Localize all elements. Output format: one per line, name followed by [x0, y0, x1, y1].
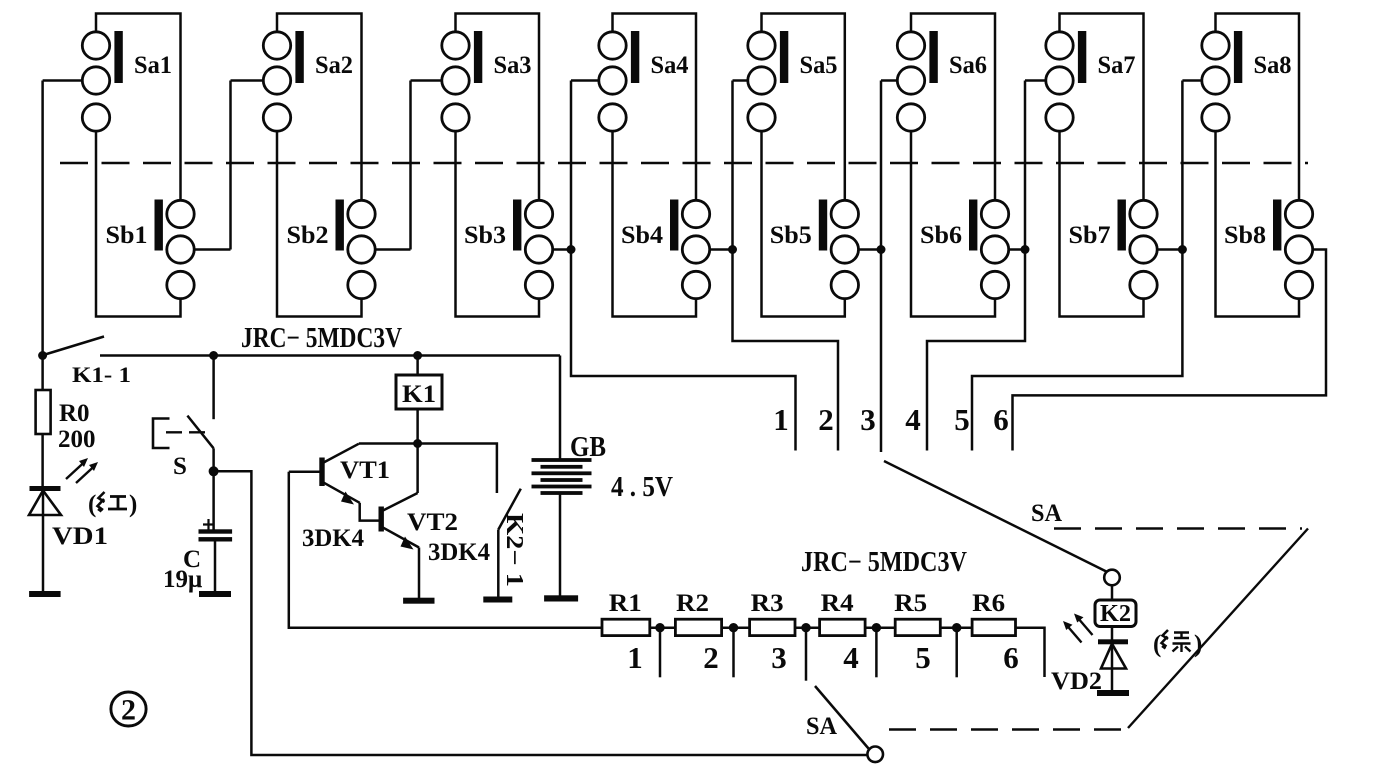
svg-text:R3: R3 — [751, 590, 784, 617]
wire Sb6 middle contact stub — [1009, 248, 1025, 251]
svg-text:): ) — [1194, 631, 1202, 658]
node: bus junction K1 — [414, 352, 422, 360]
svg-text:Sb3: Sb3 — [464, 222, 506, 249]
dashed separator line — [60, 162, 1308, 164]
svg-text:4: 4 — [905, 402, 921, 437]
svg-text:VD2: VD2 — [1051, 668, 1102, 695]
resistor R4 — [795, 619, 865, 635]
label R2 — [676, 590, 709, 617]
ground bar (VT2 emitter) — [404, 598, 434, 603]
svg-text:2: 2 — [818, 402, 834, 437]
switch K2-1 — [418, 444, 521, 598]
junction node Sb5/Sa6 — [877, 246, 885, 254]
wire Sa1-Sb1 bottom loop — [96, 131, 181, 316]
switch Sb8 contacts — [1285, 200, 1312, 298]
node: divider tap 2 — [729, 624, 737, 678]
switch Sb6 moving bar — [970, 200, 977, 250]
svg-text:Sb5: Sb5 — [770, 222, 812, 249]
switch Sb3 contacts — [525, 200, 552, 298]
label Sa7 — [1098, 52, 1136, 79]
svg-text:R4: R4 — [821, 590, 855, 617]
transistor VT2 — [379, 444, 419, 599]
wire Sb8 middle contact stub — [1013, 250, 1327, 451]
node labels 1-6 (selector contacts upper) — [773, 402, 1009, 437]
svg-text:Sb7: Sb7 — [1069, 222, 1111, 249]
node: bus junction S — [210, 352, 218, 360]
svg-text:R1: R1 — [609, 590, 642, 617]
switch Sa5 frame wire — [762, 14, 845, 201]
label Sb6 — [920, 222, 962, 249]
svg-text:6: 6 — [993, 402, 1009, 437]
svg-text:3DK4: 3DK4 — [302, 525, 364, 552]
switch Sa4 frame wire — [613, 14, 697, 201]
switch Sb5 contacts — [831, 200, 858, 298]
resistor R6 — [940, 619, 1015, 635]
label VD1 — [52, 523, 108, 550]
node: collector junction — [414, 440, 422, 448]
svg-text:Sb6: Sb6 — [920, 222, 962, 249]
svg-text:VD1: VD1 — [52, 523, 108, 550]
capacitor C polarity + — [203, 519, 214, 530]
label Sb2 — [287, 222, 329, 249]
svg-text:Sb1: Sb1 — [106, 222, 148, 249]
wire Sb4 middle contact stub — [710, 248, 733, 251]
svg-text:JRC− 5MDC3V: JRC− 5MDC3V — [241, 323, 402, 354]
label Sb5 — [770, 222, 812, 249]
switch Sa1 moving bar — [115, 32, 122, 83]
node: divider tap 5 — [953, 624, 961, 678]
switch Sa3 moving bar — [474, 32, 481, 83]
switch Sb8 moving bar — [1274, 200, 1281, 250]
label (red) — [88, 491, 137, 518]
label Sb1 — [106, 222, 148, 249]
mechanical link dashed (lower) — [889, 728, 1126, 730]
node: divider tap 4 — [872, 624, 880, 678]
label Sa1 — [134, 52, 172, 79]
svg-text:R6: R6 — [972, 590, 1005, 617]
svg-text:5: 5 — [954, 402, 970, 437]
switch Sa3 frame wire — [456, 14, 540, 201]
label Sb3 — [464, 222, 506, 249]
label VT1 — [340, 457, 390, 484]
ground bar (VD1) — [30, 592, 60, 597]
capacitor C — [199, 471, 232, 592]
svg-text:K1- 1: K1- 1 — [72, 362, 131, 387]
switch Sa6 frame wire — [911, 14, 995, 201]
wire Sb2 middle contact stub — [375, 248, 410, 251]
switch Sa7 contacts — [1046, 32, 1073, 131]
ground bar (VD2) — [1098, 691, 1129, 696]
label R3 — [751, 590, 784, 617]
label (green) — [1153, 630, 1202, 658]
wire Sa2-Sb2 bottom loop — [277, 131, 362, 316]
switch Sb1 moving bar — [155, 200, 162, 250]
svg-text:Sa5: Sa5 — [800, 52, 838, 79]
switch Sb3 moving bar — [514, 200, 521, 250]
label R6 — [972, 590, 1005, 617]
switch Sa5 moving bar — [780, 32, 787, 83]
label SA (upper) — [1031, 500, 1062, 527]
switch Sa2 moving bar — [296, 32, 303, 83]
label R4 — [821, 590, 855, 617]
svg-text:VT1: VT1 — [340, 457, 390, 484]
wire Sa5-Sb5 bottom loop — [762, 131, 845, 316]
node: junction below S — [209, 467, 218, 476]
switch Sa1 frame wire — [96, 14, 181, 201]
label Sa4 — [651, 52, 689, 79]
label R1 — [609, 590, 642, 617]
svg-text:2: 2 — [121, 694, 136, 727]
svg-text:4 . 5V: 4 . 5V — [611, 472, 673, 503]
LED VD1 (red) — [29, 487, 61, 593]
resistor R5 — [865, 619, 940, 635]
label R5 — [894, 590, 927, 617]
svg-text:(: ( — [1153, 631, 1161, 658]
label 3DK4 (VT2) — [428, 539, 490, 566]
wire Sa1 middle contact stub — [43, 81, 83, 356]
svg-text:Sa6: Sa6 — [949, 52, 987, 79]
switch Sa5 contacts — [748, 32, 775, 131]
wire Sa3 middle contact stub — [411, 81, 442, 250]
label Sa5 — [800, 52, 838, 79]
svg-text:1: 1 — [627, 640, 643, 675]
wire bus (relay supply) — [100, 354, 560, 357]
svg-text:K1: K1 — [402, 381, 436, 408]
svg-text:Sa8: Sa8 — [1254, 52, 1292, 79]
mechanical link dashed (upper) — [1054, 527, 1302, 529]
wire Sa7 middle contact stub — [927, 81, 1046, 451]
wire VT1 base to divider chain — [289, 472, 602, 628]
switch Sa1 contacts — [82, 32, 109, 131]
LED VD2 (green) — [1099, 640, 1128, 691]
svg-text:3: 3 — [860, 402, 876, 437]
switch Sa2 frame wire — [277, 14, 362, 201]
label VD2 — [1051, 668, 1102, 695]
svg-text:Sa3: Sa3 — [494, 52, 532, 79]
svg-text:R5: R5 — [894, 590, 927, 617]
wire Sa6-Sb6 bottom loop — [911, 131, 995, 316]
mechanical link diagonal — [1128, 529, 1308, 729]
wire Sa6 middle contact stub — [881, 81, 897, 453]
wire S junction to lower-left rail — [214, 471, 867, 755]
svg-text:Sa1: Sa1 — [134, 52, 172, 79]
figure number (2) — [111, 692, 146, 727]
switch Sb2 moving bar — [336, 200, 343, 250]
svg-text:Sa2: Sa2 — [315, 52, 353, 79]
ground bar (K2-1) — [484, 597, 512, 602]
wire Sb1 middle contact stub — [194, 248, 230, 251]
label R0 200 — [58, 400, 96, 453]
terminal: SA upper wiper — [1104, 570, 1120, 586]
relay coil K1 — [396, 356, 442, 444]
svg-text:JRC− 5MDC3V: JRC− 5MDC3V — [801, 547, 967, 578]
svg-text:Sa4: Sa4 — [651, 52, 689, 79]
node: divider tap 3 — [802, 624, 810, 681]
label S — [173, 453, 187, 480]
svg-text:GB: GB — [570, 432, 606, 463]
svg-text:): ) — [129, 491, 137, 518]
label Sa8 — [1254, 52, 1292, 79]
LED VD2 emission arrows — [1063, 614, 1093, 643]
resistor R3 — [722, 619, 795, 635]
wire Sa4 middle contact stub — [571, 81, 796, 451]
svg-text:4: 4 — [843, 640, 859, 675]
tap labels 1-6 (lower) — [627, 640, 1019, 675]
wire bus to S — [212, 356, 215, 420]
label Sa2 — [315, 52, 353, 79]
LED VD1 emission arrows — [66, 458, 98, 483]
switch SA upper blade — [884, 461, 1106, 572]
switch Sa7 moving bar — [1078, 32, 1085, 83]
label 3DK4 (VT1) — [302, 525, 364, 552]
switch K1-1 blade — [45, 337, 104, 355]
switch Sb2 contacts — [348, 200, 375, 298]
switch Sa3 contacts — [442, 32, 469, 131]
switch Sb1 contacts — [167, 200, 194, 298]
svg-text:(: ( — [88, 491, 96, 518]
svg-text:K2− 1: K2− 1 — [501, 513, 527, 587]
wire Sa4-Sb4 bottom loop — [613, 131, 697, 316]
battery GB 4.5V — [532, 356, 591, 597]
switch Sb4 contacts — [682, 200, 709, 298]
resistor R1 — [602, 619, 650, 635]
wire Sa7-Sb7 bottom loop — [1060, 131, 1144, 316]
svg-text:S: S — [173, 453, 187, 480]
label K1-1 — [72, 362, 131, 387]
svg-text:3: 3 — [771, 640, 787, 675]
switch Sa6 contacts — [897, 32, 924, 131]
junction node Sb4/Sa5 — [729, 246, 737, 254]
switch Sb7 contacts — [1130, 200, 1157, 298]
label Sb8 — [1224, 222, 1266, 249]
label VT2 — [407, 509, 458, 536]
resistor R2 — [650, 619, 722, 635]
svg-text:Sb4: Sb4 — [621, 222, 664, 249]
svg-text:19μ: 19μ — [163, 566, 202, 593]
label GB — [570, 432, 606, 463]
wire after R6 to tap 6 — [1016, 628, 1045, 677]
ground bar (GB) — [545, 596, 578, 601]
wire Sa8 middle contact stub — [972, 81, 1202, 451]
switch Sa8 contacts — [1202, 32, 1229, 131]
label 4.5V — [611, 472, 673, 503]
label Sa3 — [494, 52, 532, 79]
resistor R0 — [36, 356, 51, 487]
switch Sa8 frame wire — [1216, 14, 1300, 201]
label Sb7 — [1069, 222, 1111, 249]
label Sb4 — [621, 222, 664, 249]
wire Sa8-Sb8 bottom loop — [1216, 131, 1300, 316]
svg-text:Sa7: Sa7 — [1098, 52, 1136, 79]
wire Sa2 middle contact stub — [231, 81, 264, 250]
switch Sa7 frame wire — [1060, 14, 1144, 201]
svg-text:1: 1 — [773, 402, 789, 437]
switch Sb5 moving bar — [819, 200, 826, 250]
relay coil K2 — [1095, 585, 1136, 641]
wire Sb7 middle contact stub — [1157, 248, 1182, 251]
terminal: SA lower wiper — [867, 747, 883, 763]
label K2-1 (rotated) — [501, 513, 527, 587]
switch Sa8 moving bar — [1234, 32, 1241, 83]
svg-text:200: 200 — [58, 426, 96, 453]
svg-text:2: 2 — [703, 640, 719, 675]
label C 19u — [163, 546, 202, 593]
wire Sb3 middle contact stub — [553, 248, 571, 251]
wire Sa5 middle contact stub — [733, 81, 839, 451]
junction node Sb3/Sa4 — [567, 246, 575, 254]
switch S blade — [187, 416, 213, 472]
junction node Sb6/Sa7 — [1021, 246, 1029, 254]
transistor VT1 — [289, 444, 418, 521]
svg-text:SA: SA — [806, 713, 837, 740]
svg-text:Sb2: Sb2 — [287, 222, 329, 249]
label Sa6 — [949, 52, 987, 79]
switch Sb4 moving bar — [671, 200, 678, 250]
switch Sa6 moving bar — [930, 32, 937, 83]
label JRC-5MDC3V (K1 relay) — [241, 323, 402, 354]
svg-text:5: 5 — [915, 640, 931, 675]
node: bus junction left — [39, 352, 47, 360]
switch Sb6 contacts — [981, 200, 1008, 298]
switch Sb7 moving bar — [1118, 200, 1125, 250]
switch Sa4 contacts — [599, 32, 626, 131]
svg-text:R2: R2 — [676, 590, 709, 617]
label SA (lower) — [806, 713, 837, 740]
label JRC-5MDC3V (K2 relay) — [801, 547, 967, 578]
node: divider tap 1 — [656, 624, 664, 678]
svg-text:6: 6 — [1003, 640, 1019, 675]
switch Sa2 contacts — [263, 32, 290, 131]
switch SA lower blade — [815, 686, 869, 749]
svg-text:K2: K2 — [1100, 601, 1131, 627]
svg-text:3DK4: 3DK4 — [428, 539, 490, 566]
pushbutton actuator (S) — [153, 419, 207, 449]
wire Sa3-Sb3 bottom loop — [456, 131, 540, 316]
svg-text:Sb8: Sb8 — [1224, 222, 1266, 249]
svg-text:R0: R0 — [59, 400, 90, 427]
ground bar (C) — [200, 592, 231, 597]
svg-text:VT2: VT2 — [407, 509, 458, 536]
wire Sb5 middle contact stub — [859, 248, 882, 251]
svg-text:SA: SA — [1031, 500, 1062, 527]
junction node Sb7/Sa8 — [1178, 246, 1186, 254]
switch Sa4 moving bar — [631, 32, 638, 83]
